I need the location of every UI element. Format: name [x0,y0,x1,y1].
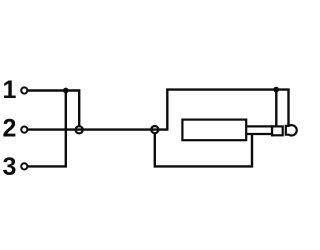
wire circle B down, bottom run, up to sleeve [155,134,252,167]
plug sleeve end divider [271,125,273,136]
plug ring segment [272,126,283,135]
svg-text:3: 3 [2,153,16,181]
wire ring drop from top-run junction [275,90,277,128]
plug sleeve shaft bottom [246,133,272,135]
junction dot on top run [273,87,279,93]
junction dot on terminal1 wire [63,88,69,94]
terminal 3 circle [21,163,27,169]
svg-text:1: 1 [2,76,16,104]
svg-text:2: 2 [2,115,16,143]
plug tip [286,125,297,135]
terminal 2 circle [21,127,27,133]
plug sleeve shaft top [246,125,272,127]
contact circle A [76,126,83,133]
terminal 1 circle [21,87,27,93]
wire terminal2 horizontal, up corner, top run, down to tip [28,90,289,130]
wire terminal1 horizontal + corner down to switch circle A [28,91,79,127]
wire vertical from junction down + terminal3 horizontal [28,89,66,166]
contact circle B [151,126,158,133]
plug body [182,120,246,141]
